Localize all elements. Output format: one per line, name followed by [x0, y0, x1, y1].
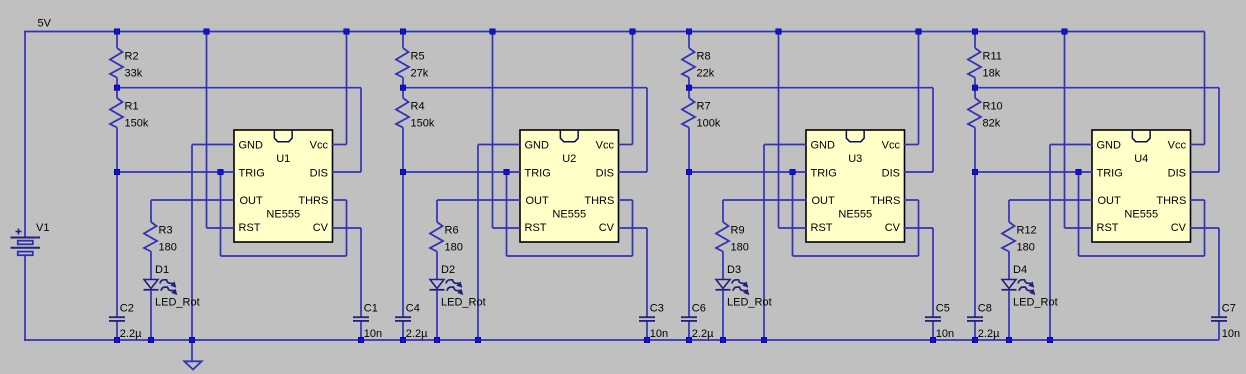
svg-text:R7: R7	[697, 101, 711, 113]
svg-text:DIS: DIS	[882, 167, 900, 179]
svg-text:180: 180	[1017, 242, 1035, 254]
wire THRS U1 bottom	[221, 255, 347, 257]
node 5V/Vcc U1	[344, 29, 350, 35]
wire RST U3 stub	[779, 227, 808, 229]
wire GND U4 stub	[1050, 144, 1093, 146]
wire CV U2 stub	[618, 227, 648, 229]
node ground C2	[114, 337, 120, 343]
wire THRS U2 right vertical	[632, 200, 634, 256]
svg-text:OUT: OUT	[526, 195, 550, 207]
node TRIG U4 timing	[972, 169, 978, 175]
wire CV U3 stub	[904, 227, 934, 229]
wire OUT-to-R6	[436, 200, 438, 222]
wire C1-to-rail	[360, 321, 362, 340]
wire OUT U3	[723, 199, 807, 201]
wire R11-R10	[974, 78, 976, 99]
svg-text:33k: 33k	[125, 68, 143, 80]
wire GND U1 stub	[192, 144, 235, 146]
capacitor C3	[639, 303, 668, 340]
wire GND U2 vertical	[477, 145, 479, 341]
svg-text:10n: 10n	[364, 328, 382, 340]
svg-text:R8: R8	[697, 51, 711, 63]
svg-text:NE555: NE555	[1124, 209, 1158, 221]
resistor R3	[144, 222, 177, 254]
wire CV U3 to C5	[932, 228, 934, 318]
wire Vcc U3 stub	[904, 144, 919, 146]
resistor R9	[716, 222, 749, 254]
svg-text:OUT: OUT	[240, 195, 264, 207]
wire OUT-to-R12	[1008, 200, 1010, 222]
resistor R7	[682, 98, 721, 130]
wire RST U1 vertical	[206, 32, 208, 229]
timer IC U1 (NE555)	[234, 130, 333, 242]
capacitor C6	[681, 303, 714, 340]
svg-text:27k: 27k	[411, 68, 429, 80]
node 5V/RST U4	[1062, 29, 1068, 35]
svg-text:2.2µ: 2.2µ	[692, 328, 714, 340]
svg-text:RST: RST	[239, 222, 261, 234]
node 5V/R8	[686, 29, 692, 35]
svg-text:R2: R2	[125, 51, 139, 63]
svg-text:R6: R6	[445, 225, 459, 237]
svg-text:82k: 82k	[983, 118, 1001, 130]
svg-text:Vcc: Vcc	[310, 140, 329, 152]
node TRIG/THRS U4	[1076, 169, 1082, 175]
svg-text:180: 180	[731, 242, 749, 254]
svg-text:D4: D4	[1013, 264, 1027, 276]
node TRIG U1 timing	[114, 169, 120, 175]
wire GND U2 stub	[478, 144, 521, 146]
svg-text:GND: GND	[525, 140, 550, 152]
wire R7-to-C6 timing node	[688, 128, 690, 318]
timer IC U2 (NE555)	[520, 130, 619, 242]
svg-text:TRIG: TRIG	[1097, 167, 1123, 179]
wire U1 Vcc-to-R2	[116, 32, 118, 49]
svg-text:THRS: THRS	[870, 195, 900, 207]
svg-text:C2: C2	[120, 303, 134, 315]
resistor R6	[430, 222, 463, 254]
svg-text:R10: R10	[983, 101, 1003, 113]
wire DIS U4 stub	[1190, 171, 1220, 173]
svg-text:CV: CV	[885, 222, 901, 234]
svg-text:U1: U1	[276, 153, 290, 165]
node DIS U3 divider	[686, 85, 692, 91]
wire OUT-to-R3	[150, 200, 152, 222]
node TRIG/THRS U3	[790, 169, 796, 175]
svg-text:RST: RST	[525, 222, 547, 234]
wire Vcc U3 vertical	[918, 32, 920, 145]
svg-text:GND: GND	[239, 140, 264, 152]
wire Vcc U2 vertical	[632, 32, 634, 145]
wire DIS U4 to divider node	[975, 87, 1219, 89]
wire D3-to-ground rail	[722, 290, 724, 340]
resistor R11	[968, 48, 1002, 80]
svg-text:R5: R5	[411, 51, 425, 63]
capacitor C4	[395, 303, 428, 340]
node 5V/R2	[114, 29, 120, 35]
svg-text:OUT: OUT	[1098, 195, 1122, 207]
svg-text:5V: 5V	[38, 18, 52, 30]
capacitor C7	[1211, 303, 1240, 340]
wire U2 Vcc-to-R5	[402, 32, 404, 49]
node ground C6	[686, 337, 692, 343]
capacitor C8	[967, 303, 1000, 340]
wire R4-to-C4 timing node	[402, 128, 404, 318]
svg-text:22k: 22k	[697, 68, 715, 80]
wire THRS U4 stub	[1190, 199, 1205, 201]
svg-text:GND: GND	[811, 140, 836, 152]
wire THRS U3 right vertical	[918, 200, 920, 256]
resistor R10	[968, 98, 1003, 130]
wire R3-to-D1	[150, 252, 152, 281]
wire RST U2 stub	[493, 227, 522, 229]
wire THRS-TRIG U2 vertical	[506, 172, 508, 256]
wire Vcc U1 stub	[332, 144, 347, 146]
node TRIG U2 timing	[400, 169, 406, 175]
wire Vcc U4 vertical	[1204, 32, 1206, 145]
wire R9-to-D3	[722, 252, 724, 281]
wire C5-to-rail	[932, 321, 934, 340]
svg-text:2.2µ: 2.2µ	[978, 328, 1000, 340]
svg-text:D3: D3	[727, 264, 741, 276]
wire R1-to-C2 timing node	[116, 128, 118, 318]
svg-text:180: 180	[159, 242, 177, 254]
LED D4	[1002, 264, 1058, 308]
wire C2-to-rail	[116, 321, 118, 340]
node ground GND U4	[1047, 337, 1053, 343]
wire THRS U3 bottom	[793, 255, 919, 257]
svg-text:D2: D2	[441, 264, 455, 276]
svg-text:2.2µ: 2.2µ	[406, 328, 428, 340]
capacitor C2	[109, 303, 142, 340]
svg-text:U4: U4	[1134, 153, 1148, 165]
svg-text:R1: R1	[125, 101, 139, 113]
svg-text:V1: V1	[36, 222, 49, 234]
svg-text:10n: 10n	[1222, 328, 1240, 340]
wire GND U3 stub	[764, 144, 807, 146]
svg-text:TRIG: TRIG	[525, 167, 551, 179]
wire R5-R4	[402, 78, 404, 99]
LED D1	[144, 264, 200, 308]
svg-text:R4: R4	[411, 101, 425, 113]
wire DIS U2 vertical	[646, 88, 648, 172]
wire OUT-to-R9	[722, 200, 724, 222]
svg-text:C3: C3	[650, 303, 664, 315]
svg-text:LED_Rot: LED_Rot	[727, 296, 772, 308]
svg-text:RST: RST	[1097, 222, 1119, 234]
node ground GND U2	[475, 337, 481, 343]
svg-text:TRIG: TRIG	[239, 167, 265, 179]
node DIS U2 divider	[400, 85, 406, 91]
wire THRS U4 right vertical	[1204, 200, 1206, 256]
resistor R1	[110, 98, 149, 130]
svg-text:180: 180	[445, 242, 463, 254]
wire THRS U2 stub	[618, 199, 633, 201]
wire DIS U1 vertical	[360, 88, 362, 172]
svg-text:CV: CV	[599, 222, 615, 234]
node TRIG U3 timing	[686, 169, 692, 175]
wire THRS-TRIG U1 vertical	[220, 172, 222, 256]
svg-text:2.2µ: 2.2µ	[120, 328, 142, 340]
svg-text:U3: U3	[848, 153, 862, 165]
svg-text:NE555: NE555	[552, 209, 586, 221]
wire CV U4 to C7	[1218, 228, 1220, 318]
wire RST U1 stub	[207, 227, 236, 229]
node 5V/RST U1	[204, 29, 210, 35]
wire C3-to-rail	[646, 321, 648, 340]
wire CV U2 to C3	[646, 228, 648, 318]
node 5V/R5	[400, 29, 406, 35]
wire OUT U1	[151, 199, 235, 201]
svg-text:R3: R3	[159, 225, 173, 237]
wire R6-to-D2	[436, 252, 438, 281]
LED D3	[716, 264, 772, 308]
svg-text:GND: GND	[1097, 140, 1122, 152]
resistor R2	[110, 48, 143, 80]
wire RST U4 stub	[1065, 227, 1094, 229]
wire OUT U4	[1009, 199, 1093, 201]
wire GND U3 vertical	[763, 145, 765, 341]
wire Vcc U2 stub	[618, 144, 633, 146]
timer IC U3 (NE555)	[806, 130, 905, 242]
ground	[184, 361, 201, 369]
node ground D4	[1006, 337, 1012, 343]
capacitor C5	[925, 303, 954, 340]
node 5V/RST U3	[776, 29, 782, 35]
svg-text:DIS: DIS	[310, 167, 328, 179]
svg-text:U2: U2	[562, 153, 576, 165]
svg-text:C7: C7	[1222, 303, 1236, 315]
wire DIS U3 to divider node	[689, 87, 933, 89]
node ground C8	[972, 337, 978, 343]
wire GND U4 vertical	[1049, 145, 1051, 341]
svg-text:LED_Rot: LED_Rot	[441, 296, 486, 308]
svg-text:DIS: DIS	[596, 167, 614, 179]
node DIS U1 divider	[114, 85, 120, 91]
wire THRS U3 stub	[904, 199, 919, 201]
wire THRS-TRIG U3 vertical	[792, 172, 794, 256]
wire 5V top rail	[24, 31, 1205, 33]
wire R12-to-D4	[1008, 252, 1010, 281]
svg-text:C6: C6	[692, 303, 706, 315]
svg-text:Vcc: Vcc	[1168, 140, 1187, 152]
wire THRS U2 bottom	[507, 255, 633, 257]
wire R10-to-C8 timing node	[974, 128, 976, 318]
node ground C1	[358, 337, 364, 343]
wire THRS U1 right vertical	[346, 200, 348, 256]
wire C4-to-rail	[402, 321, 404, 340]
wire RST U3 vertical	[778, 32, 780, 229]
wire DIS U2 stub	[618, 171, 648, 173]
wire TRIG U4	[975, 171, 1093, 173]
wire U3 Vcc-to-R8	[688, 32, 690, 49]
svg-text:LED_Rot: LED_Rot	[155, 296, 200, 308]
wire DIS U3 stub	[904, 171, 934, 173]
svg-text:100k: 100k	[697, 118, 721, 130]
wire Vcc U1 vertical	[346, 32, 348, 145]
wire TRIG U2	[403, 171, 521, 173]
svg-text:THRS: THRS	[298, 195, 328, 207]
wire CV U4 stub	[1190, 227, 1220, 229]
wire RST U4 vertical	[1064, 32, 1066, 229]
timer IC U4 (NE555)	[1092, 130, 1191, 242]
wire OUT U2	[437, 199, 521, 201]
wire TRIG U1	[117, 171, 235, 173]
svg-text:OUT: OUT	[812, 195, 836, 207]
wire C6-to-rail	[688, 321, 690, 340]
svg-text:C1: C1	[364, 303, 378, 315]
wire THRS-TRIG U4 vertical	[1078, 172, 1080, 256]
wire THRS U4 bottom	[1079, 255, 1205, 257]
battery V1	[11, 222, 50, 255]
wire D1-to-ground rail	[150, 290, 152, 340]
svg-text:C4: C4	[406, 303, 420, 315]
wire C7-to-rail	[1218, 321, 1220, 340]
wire R8-R7	[688, 78, 690, 99]
capacitor C1	[353, 303, 382, 340]
resistor R5	[396, 48, 429, 80]
svg-text:LED_Rot: LED_Rot	[1013, 296, 1058, 308]
wire C8-to-rail	[974, 321, 976, 340]
wire R2-R1	[116, 78, 118, 99]
svg-text:TRIG: TRIG	[811, 167, 837, 179]
node 5V/RST U2	[490, 29, 496, 35]
svg-text:Vcc: Vcc	[596, 140, 615, 152]
svg-text:D1: D1	[155, 264, 169, 276]
node ground GND U1	[189, 337, 195, 343]
wire DIS U2 to divider node	[403, 87, 647, 89]
wire DIS U3 vertical	[932, 88, 934, 172]
wire THRS U1 stub	[332, 199, 347, 201]
resistor R4	[396, 98, 435, 130]
wire U4 Vcc-to-R11	[974, 32, 976, 49]
wire DIS U1 to divider node	[117, 87, 361, 89]
node 5V/Vcc U2	[630, 29, 636, 35]
wire DIS U4 vertical	[1218, 88, 1220, 172]
svg-text:Vcc: Vcc	[882, 140, 901, 152]
resistor R12	[1002, 222, 1037, 254]
node DIS U4 divider	[972, 85, 978, 91]
node ground D3	[720, 337, 726, 343]
wire battery bottom lead	[24, 256, 26, 342]
svg-text:R9: R9	[731, 225, 745, 237]
svg-text:10n: 10n	[936, 328, 954, 340]
svg-text:R11: R11	[983, 51, 1002, 63]
node TRIG/THRS U1	[218, 169, 224, 175]
node ground GND U3	[761, 337, 767, 343]
node TRIG/THRS U2	[504, 169, 510, 175]
node 5V/Vcc U3	[916, 29, 922, 35]
svg-text:NE555: NE555	[838, 209, 872, 221]
wire CV U1 to C1	[360, 228, 362, 318]
node ground D2	[434, 337, 440, 343]
svg-text:150k: 150k	[125, 118, 149, 130]
svg-text:10n: 10n	[650, 328, 668, 340]
wire TRIG U3	[689, 171, 807, 173]
wire ground bottom rail	[24, 339, 1219, 341]
wire D4-to-ground rail	[1008, 290, 1010, 340]
svg-text:THRS: THRS	[584, 195, 614, 207]
wire RST U2 vertical	[492, 32, 494, 229]
wire DIS U1 stub	[332, 171, 362, 173]
svg-text:NE555: NE555	[266, 209, 300, 221]
svg-text:DIS: DIS	[1168, 167, 1186, 179]
svg-text:C8: C8	[978, 303, 992, 315]
svg-text:R12: R12	[1017, 225, 1037, 237]
wire GND U1 vertical	[191, 145, 193, 341]
LED D2	[430, 264, 486, 308]
wire battery top lead	[24, 32, 26, 238]
wire Vcc U4 stub	[1190, 144, 1205, 146]
svg-text:C5: C5	[936, 303, 950, 315]
svg-text:THRS: THRS	[1156, 195, 1186, 207]
svg-text:CV: CV	[313, 222, 329, 234]
resistor R8	[682, 48, 715, 80]
svg-text:RST: RST	[811, 222, 833, 234]
node ground D1	[148, 337, 154, 343]
node ground C4	[400, 337, 406, 343]
wire D2-to-ground rail	[436, 290, 438, 340]
node ground C3	[644, 337, 650, 343]
node 5V/R11	[972, 29, 978, 35]
svg-text:150k: 150k	[411, 118, 435, 130]
wire ground stem	[191, 340, 193, 361]
svg-text:18k: 18k	[983, 68, 1001, 80]
svg-text:CV: CV	[1171, 222, 1187, 234]
wire CV U1 stub	[332, 227, 362, 229]
node ground C5	[930, 337, 936, 343]
